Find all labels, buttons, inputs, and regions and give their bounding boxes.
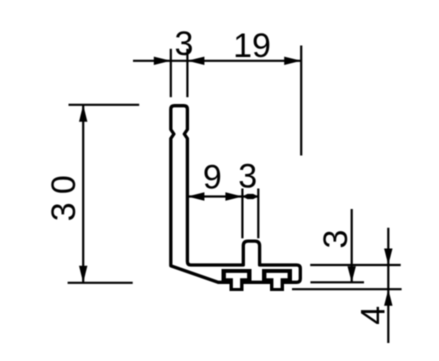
- svg-text:3: 3: [317, 230, 355, 249]
- svg-text:4: 4: [354, 306, 392, 325]
- svg-text:9: 9: [203, 158, 222, 196]
- svg-text:30: 30: [45, 175, 83, 221]
- svg-text:3: 3: [238, 158, 257, 196]
- svg-text:3: 3: [175, 25, 194, 63]
- svg-text:19: 19: [233, 27, 271, 65]
